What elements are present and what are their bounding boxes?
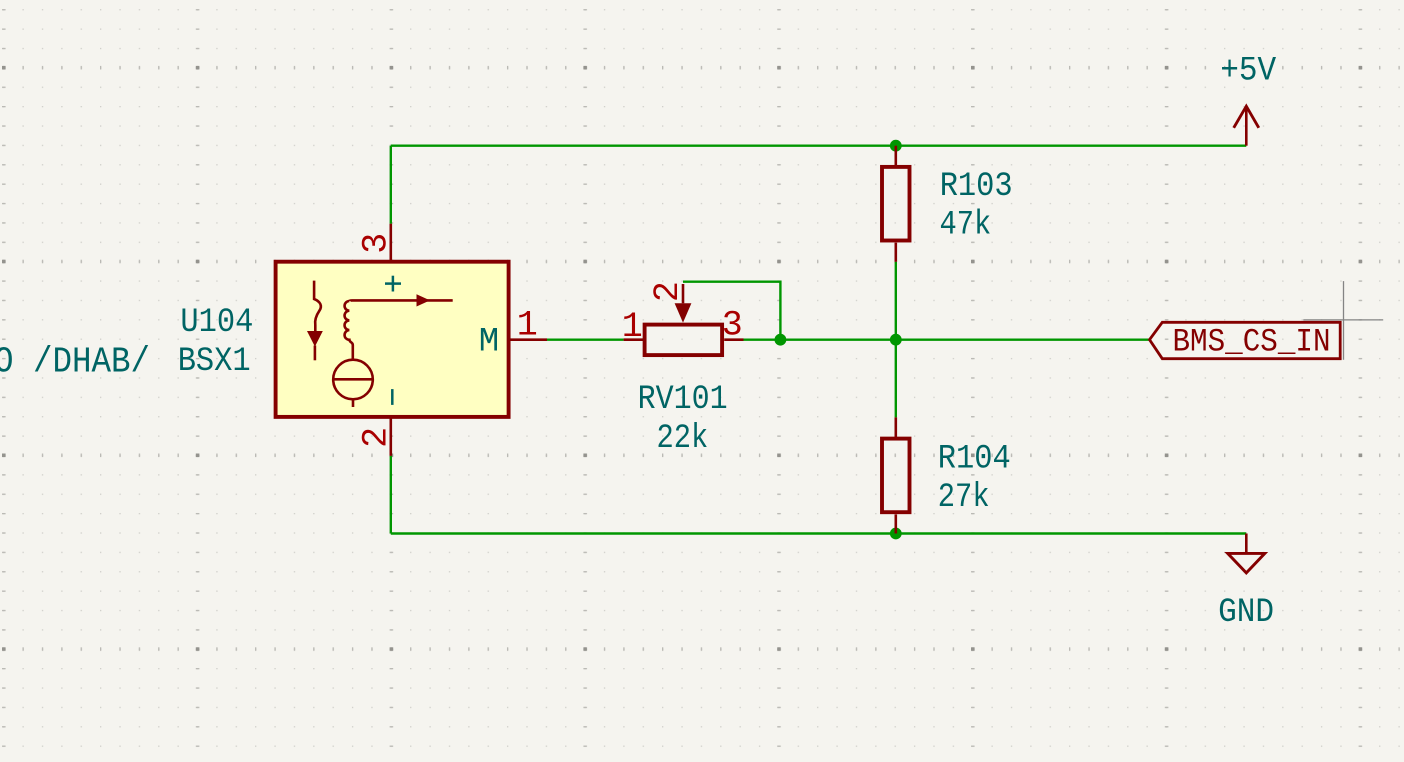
U104 pin name +	[385, 276, 401, 292]
global label BMS_CS_IN outline	[1150, 322, 1341, 358]
R104 bottom pin	[894, 514, 897, 533]
svg-text:BMS_CS_IN: BMS_CS_IN	[1173, 323, 1331, 360]
svg-text:U104: U104	[180, 304, 253, 342]
potentiometer RV101 body	[645, 325, 723, 356]
RV101 wiper pin 2 stem	[682, 284, 685, 303]
wire U104 pin2 down	[390, 456, 392, 534]
U104 internal current path squiggle	[314, 281, 321, 332]
wire top +5V rail	[391, 144, 1247, 146]
RV101 wiper arrow	[675, 303, 692, 322]
R104 top pin	[894, 417, 897, 438]
wire bottom GND rail	[391, 532, 1247, 534]
svg-text:GND: GND	[1218, 594, 1274, 632]
U104 internal current source chord	[333, 378, 373, 381]
svg-text:27k: 27k	[938, 479, 990, 517]
svg-text:2: 2	[357, 427, 397, 448]
U104 internal stem below circle	[352, 399, 355, 407]
R103 top pin	[894, 146, 897, 166]
power symbol +5V stem	[1245, 106, 1248, 146]
wire U104 pin1 to RV101 pin1	[547, 339, 624, 341]
junction wiper node	[775, 334, 787, 346]
U104 internal coil	[345, 301, 353, 360]
cursor crosshair	[1303, 281, 1383, 360]
svg-text:3: 3	[722, 305, 743, 345]
op-amp U104 body	[276, 262, 509, 417]
junction bottom rail	[890, 528, 902, 540]
svg-text:22k: 22k	[657, 420, 709, 458]
junction top rail	[890, 140, 902, 152]
ground symbol triangle	[1228, 553, 1265, 573]
U104 internal current arrow tail	[314, 346, 317, 361]
RV101 pin 1	[624, 338, 644, 341]
wire U104 pin3 to rail	[390, 146, 392, 224]
U104 internal wire to output	[349, 299, 452, 302]
svg-text:R103: R103	[940, 168, 1013, 206]
svg-text:1: 1	[517, 306, 538, 346]
svg-text:+5V: +5V	[1220, 53, 1277, 91]
svg-text:M: M	[479, 323, 499, 361]
R103 bottom pin	[894, 243, 897, 262]
U104 internal right arrowhead	[417, 294, 431, 306]
svg-text:BSX1: BSX1	[178, 343, 251, 381]
resistor R104 body	[882, 439, 910, 513]
wire RV101 wiper to mid node	[683, 282, 780, 340]
wire R103 to R104 vertical	[895, 262, 897, 418]
svg-text:RV101: RV101	[638, 381, 728, 419]
U104 pin 1	[508, 338, 547, 341]
svg-text:O /DHAB/: O /DHAB/	[0, 341, 150, 382]
U104 internal current source circle	[333, 360, 373, 400]
U104 pin 2	[389, 418, 392, 456]
svg-text:2: 2	[648, 281, 688, 302]
svg-text:1: 1	[622, 307, 643, 347]
svg-text:47k: 47k	[940, 207, 992, 245]
resistor R103 body	[882, 167, 910, 241]
U104 internal current arrow	[308, 332, 322, 346]
U104 pin name I	[391, 389, 394, 405]
U104 pin 3	[389, 224, 392, 262]
RV101 pin 3	[724, 338, 743, 341]
ground symbol stem	[1245, 534, 1248, 554]
svg-text:R104: R104	[938, 440, 1011, 478]
power symbol +5V arrow	[1234, 106, 1259, 128]
svg-text:3: 3	[357, 233, 397, 254]
junction mid node	[890, 334, 902, 346]
wire RV101 pin3 to BMS_CS_IN label	[744, 339, 1150, 341]
